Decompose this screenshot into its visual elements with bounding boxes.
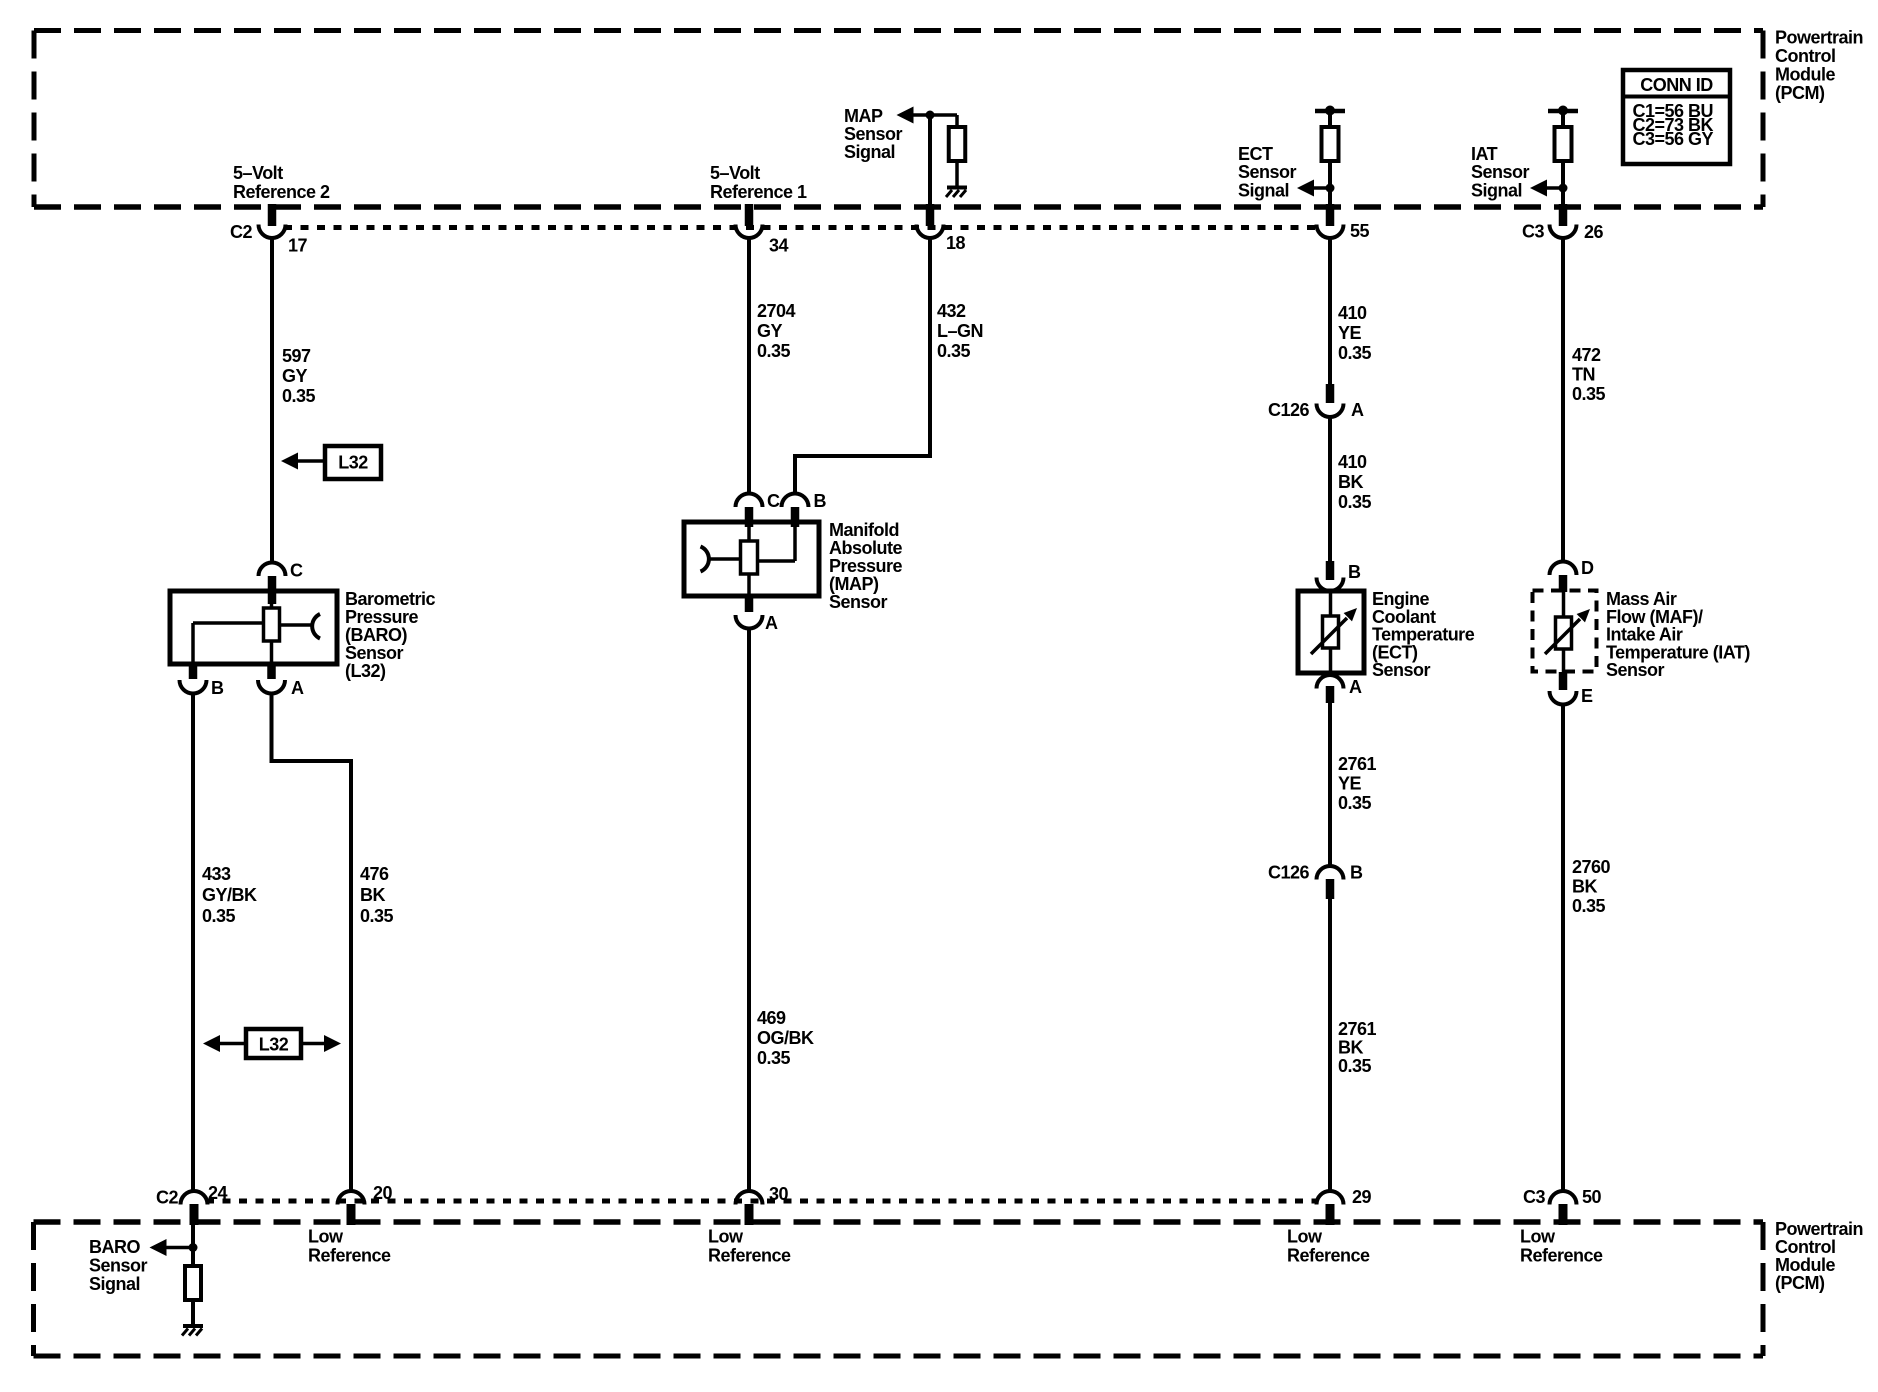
svg-text:50: 50 — [1582, 1187, 1602, 1207]
svg-text:A: A — [1349, 677, 1362, 697]
svg-text:26: 26 — [1584, 222, 1604, 242]
ground (bottom, BARO) — [183, 1324, 203, 1328]
svg-text:C2: C2 — [230, 222, 252, 242]
svg-text:Signal: Signal — [1471, 180, 1522, 200]
ground (top, MAP) — [947, 186, 967, 190]
svg-text:Module: Module — [1775, 65, 1835, 85]
wire 472 TN (C3-26 to MAF D) — [1561, 236, 1565, 562]
svg-text:0.35: 0.35 — [757, 1048, 791, 1068]
svg-text:Manifold: Manifold — [829, 520, 899, 540]
svg-text:C126: C126 — [1268, 863, 1310, 883]
svg-text:BK: BK — [1338, 472, 1363, 492]
BARO internal wiper wire — [193, 621, 264, 625]
svg-text:GY: GY — [282, 366, 308, 386]
wire 2760 BK (MAF E to C3-50) — [1561, 704, 1565, 1192]
wire 410 BK (C126 A to ECT B) — [1328, 416, 1332, 562]
svg-text:L–GN: L–GN — [937, 321, 983, 341]
svg-text:476: 476 — [360, 864, 389, 884]
node IAT signal junction — [1559, 184, 1568, 193]
PCM module box (top) — [34, 28, 1763, 33]
svg-text:469: 469 — [757, 1008, 786, 1028]
svg-text:ECT: ECT — [1238, 144, 1273, 164]
svg-text:A: A — [1351, 400, 1364, 420]
svg-text:Reference 2: Reference 2 — [233, 182, 330, 202]
svg-text:B: B — [1350, 863, 1363, 883]
MAF pin D — [1550, 562, 1577, 576]
svg-text:BK: BK — [1338, 1038, 1363, 1058]
svg-text:Control: Control — [1775, 1237, 1835, 1257]
BARO pulldown resistor — [191, 1225, 195, 1266]
svg-text:CONN ID: CONN ID — [1640, 75, 1713, 95]
connector C3 pin 50 — [1550, 1191, 1577, 1205]
svg-text:C126: C126 — [1268, 400, 1310, 420]
svg-text:34: 34 — [769, 236, 789, 256]
BARO pressure port symbol — [280, 623, 311, 627]
svg-text:OG/BK: OG/BK — [757, 1028, 814, 1048]
svg-text:Sensor: Sensor — [89, 1256, 148, 1276]
wire 476 BK (BARO A to pin 20) — [272, 693, 352, 1192]
ECT pin A — [1317, 675, 1344, 689]
PCM module box (bottom) — [34, 1219, 1764, 1225]
svg-text:29: 29 — [1352, 1187, 1372, 1207]
MAP pin A — [745, 596, 754, 612]
svg-text:2704: 2704 — [757, 301, 796, 321]
svg-text:Powertrain: Powertrain — [1775, 1219, 1863, 1239]
wire 2761 YE (ECT A to C126 B) — [1328, 703, 1332, 867]
connector C126 pin A — [1326, 384, 1335, 403]
node BARO signal junction — [189, 1243, 198, 1252]
wire 597 GY (C2-17 to BARO C) — [270, 236, 274, 563]
svg-text:Reference 1: Reference 1 — [710, 182, 807, 202]
svg-text:C3: C3 — [1523, 1187, 1545, 1207]
svg-text:Signal: Signal — [1238, 180, 1289, 200]
svg-text:(PCM): (PCM) — [1775, 83, 1825, 103]
svg-text:BK: BK — [360, 885, 385, 905]
svg-text:C3=56 GY: C3=56 GY — [1633, 129, 1714, 149]
svg-text:0.35: 0.35 — [1572, 896, 1606, 916]
MAP pullup resistor to ground — [930, 113, 957, 117]
svg-text:GY/BK: GY/BK — [202, 885, 257, 905]
ECT thermistor — [1329, 591, 1333, 616]
svg-text:Barometric: Barometric — [345, 589, 436, 609]
MAP internal B branch — [793, 527, 797, 561]
BARO signal arrow — [150, 1239, 167, 1256]
IAT signal arrow — [1530, 180, 1547, 197]
ECT signal arrow — [1297, 180, 1314, 197]
svg-text:432: 432 — [937, 301, 966, 321]
svg-text:30: 30 — [769, 1184, 789, 1204]
ECT pin B — [1326, 561, 1335, 580]
connector pin 55 — [1326, 204, 1335, 226]
connector C2 pin 24 — [181, 1191, 208, 1205]
svg-text:55: 55 — [1350, 221, 1370, 241]
svg-text:MAP: MAP — [844, 106, 883, 126]
wire 410 YE (55 to C126 A) — [1328, 236, 1332, 384]
wire 433 GY/BK (BARO B to C2-24) — [191, 693, 195, 1192]
svg-text:Low: Low — [1287, 1227, 1323, 1247]
MAP pin C — [736, 494, 763, 507]
svg-text:BK: BK — [1572, 877, 1597, 897]
wire 2704 GY (34 to MAP C) — [747, 236, 751, 494]
svg-text:B: B — [211, 678, 224, 698]
svg-text:0.35: 0.35 — [1338, 343, 1372, 363]
code box L32 with arrow — [325, 446, 381, 479]
BARO pin A — [267, 664, 276, 679]
ECT pullup rail — [1315, 109, 1345, 114]
svg-text:L32: L32 — [259, 1035, 289, 1055]
svg-text:C: C — [767, 491, 780, 511]
svg-text:C: C — [290, 561, 303, 581]
svg-text:E: E — [1581, 686, 1593, 706]
wire 18 vertical — [928, 115, 932, 204]
svg-text:Absolute: Absolute — [829, 538, 902, 558]
svg-text:0.35: 0.35 — [937, 341, 971, 361]
svg-text:Module: Module — [1775, 1255, 1835, 1275]
MAF pin E — [1559, 672, 1568, 690]
svg-text:Signal: Signal — [89, 1274, 140, 1294]
svg-text:0.35: 0.35 — [1338, 1056, 1372, 1076]
svg-text:2761: 2761 — [1338, 1019, 1377, 1039]
svg-text:410: 410 — [1338, 452, 1367, 472]
MAF/IAT sensor box (dashed) — [1533, 591, 1597, 672]
MAP pressure port symbol — [709, 557, 741, 561]
svg-text:YE: YE — [1338, 774, 1362, 794]
svg-text:C2: C2 — [156, 1188, 178, 1208]
harness dotted line (bottom) — [206, 1199, 1317, 1204]
svg-text:Control: Control — [1775, 46, 1835, 66]
svg-text:0.35: 0.35 — [282, 386, 316, 406]
svg-text:Powertrain: Powertrain — [1775, 28, 1863, 48]
connector pin 20 — [338, 1191, 365, 1205]
BARO sensor box — [170, 591, 337, 664]
svg-text:0.35: 0.35 — [757, 341, 791, 361]
svg-text:(L32): (L32) — [345, 661, 386, 681]
svg-text:Signal: Signal — [844, 142, 895, 162]
svg-text:2760: 2760 — [1572, 857, 1611, 877]
svg-text:(PCM): (PCM) — [1775, 1273, 1825, 1293]
svg-text:Low: Low — [308, 1227, 344, 1247]
BARO pin C — [259, 563, 286, 577]
svg-text:Sensor: Sensor — [1606, 660, 1665, 680]
MAP sensor box — [684, 522, 819, 596]
connector C2 pin 17 — [268, 204, 277, 226]
MAP signal arrow — [897, 107, 914, 124]
svg-text:410: 410 — [1338, 303, 1367, 323]
node ECT signal junction — [1326, 184, 1335, 193]
svg-text:597: 597 — [282, 346, 311, 366]
svg-text:YE: YE — [1338, 323, 1362, 343]
svg-text:D: D — [1581, 558, 1594, 578]
connector C126 pin B — [1317, 866, 1344, 880]
harness dotted line (top) — [284, 225, 1317, 230]
svg-text:B: B — [814, 491, 827, 511]
svg-text:17: 17 — [288, 236, 308, 256]
svg-text:Sensor: Sensor — [1471, 162, 1530, 182]
svg-text:0.35: 0.35 — [1338, 793, 1372, 813]
IAT pullup rail — [1548, 109, 1578, 114]
svg-text:Sensor: Sensor — [829, 592, 888, 612]
svg-text:24: 24 — [208, 1183, 228, 1203]
wire 469 OG/BK (MAP A to pin 30) — [747, 628, 751, 1192]
wire 2761 BK (C126 B to pin 29) — [1328, 899, 1332, 1192]
svg-text:2761: 2761 — [1338, 754, 1377, 774]
svg-text:472: 472 — [1572, 345, 1601, 365]
svg-text:Low: Low — [1520, 1227, 1556, 1247]
svg-text:Sensor: Sensor — [345, 643, 404, 663]
svg-text:GY: GY — [757, 321, 783, 341]
svg-text:Sensor: Sensor — [1372, 660, 1431, 680]
svg-text:A: A — [291, 678, 304, 698]
connector C3 pin 26 — [1559, 204, 1568, 226]
svg-text:Reference: Reference — [708, 1246, 791, 1266]
svg-text:5–Volt: 5–Volt — [710, 163, 760, 183]
connector pin 29 — [1317, 1191, 1344, 1205]
svg-text:Reference: Reference — [1520, 1246, 1603, 1266]
svg-text:433: 433 — [202, 864, 231, 884]
svg-text:L32: L32 — [338, 453, 368, 473]
code box L32 double arrow — [246, 1029, 301, 1058]
svg-text:Reference: Reference — [308, 1246, 391, 1266]
svg-text:0.35: 0.35 — [1572, 384, 1606, 404]
svg-text:Pressure: Pressure — [829, 556, 903, 576]
CONN ID table — [1623, 70, 1730, 164]
svg-text:0.35: 0.35 — [360, 906, 394, 926]
svg-text:Sensor: Sensor — [844, 124, 903, 144]
svg-text:(MAP): (MAP) — [829, 574, 879, 594]
svg-text:Low: Low — [708, 1227, 744, 1247]
svg-text:(BARO): (BARO) — [345, 625, 407, 645]
BARO internal resistor — [270, 596, 274, 608]
wire 432 L-GN (18 to MAP B) — [795, 236, 930, 494]
svg-text:Pressure: Pressure — [345, 607, 419, 627]
connector pin 30 — [736, 1191, 763, 1205]
svg-text:C3: C3 — [1522, 222, 1544, 242]
svg-text:BARO: BARO — [89, 1237, 140, 1257]
svg-text:Sensor: Sensor — [1238, 162, 1297, 182]
svg-text:20: 20 — [373, 1183, 393, 1203]
MAP internal resistor — [747, 527, 751, 541]
svg-text:B: B — [1348, 562, 1361, 582]
ECT sensor box — [1298, 591, 1364, 673]
svg-text:0.35: 0.35 — [202, 906, 236, 926]
svg-text:Reference: Reference — [1287, 1246, 1370, 1266]
svg-text:5–Volt: 5–Volt — [233, 163, 283, 183]
svg-text:IAT: IAT — [1471, 144, 1498, 164]
MAF thermistor — [1562, 592, 1566, 617]
node MAP signal junction — [926, 111, 935, 120]
svg-text:TN: TN — [1572, 365, 1595, 385]
MAP pin B — [782, 494, 809, 507]
svg-text:A: A — [765, 613, 778, 633]
connector pin 34 — [745, 204, 754, 226]
svg-text:0.35: 0.35 — [1338, 492, 1372, 512]
svg-text:18: 18 — [946, 233, 966, 253]
BARO pin B — [189, 664, 198, 679]
connector pin 18 — [926, 204, 935, 226]
